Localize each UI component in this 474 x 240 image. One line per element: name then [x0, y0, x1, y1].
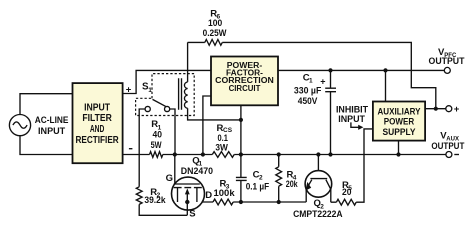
wire minus rail [122, 154, 446, 156]
wire PFC bottom / C2 branch [240, 105, 242, 202]
wire top rail R6 to output [188, 42, 436, 108]
svg-text:D: D [205, 190, 212, 201]
svg-text:100k: 100k [214, 188, 236, 199]
svg-text:INPUT: INPUT [338, 114, 365, 125]
label R5 [342, 180, 352, 198]
capacitor C1 [325, 88, 336, 92]
wire AC top [20, 94, 73, 115]
mosfet Q1 gate bar [174, 183, 200, 185]
AC source [9, 115, 30, 136]
wire drain bottom [178, 201, 214, 203]
wire PFC sense stub [203, 96, 211, 155]
label plus rectifier [126, 84, 132, 95]
svg-text:RECTIFIER: RECTIFIER [76, 135, 119, 146]
block auxiliary power supply [373, 102, 425, 141]
capacitor C2 [236, 177, 247, 180]
label Q2 CMPT2222A [293, 198, 343, 220]
terminal aux plus [446, 104, 460, 115]
resistor R2 [136, 187, 142, 205]
label INHIBIT INPUT [336, 105, 368, 125]
transistor Q2 body [305, 171, 332, 198]
transformer core bars [179, 78, 182, 110]
svg-text:0.1 µF: 0.1 µF [246, 181, 270, 192]
svg-text:SUPPLY: SUPPLY [383, 127, 417, 137]
label R4 [286, 169, 299, 190]
svg-text:AUXILIARY: AUXILIARY [378, 107, 422, 117]
wire AC bottom [20, 136, 73, 155]
wire gate riser [174, 155, 176, 185]
svg-text:+: + [126, 84, 132, 95]
mosfet Q1 source electrode [174, 188, 182, 202]
relay S1 dashed enclosure [136, 74, 195, 116]
label Q1 DN2470 [181, 155, 213, 177]
label minus rectifier [129, 148, 133, 150]
wire C1 branch [330, 70, 332, 154]
svg-text:CMPT2222A: CMPT2222A [293, 209, 343, 220]
label Vaux output [431, 130, 464, 152]
mosfet Q1 body electrode [184, 188, 191, 202]
resistor R3 [213, 199, 233, 205]
svg-text:AND: AND [90, 124, 105, 135]
svg-text:450V: 450V [298, 96, 318, 107]
svg-text:INPUT: INPUT [38, 126, 65, 137]
label RCS [215, 123, 232, 154]
switch contact right [165, 106, 170, 111]
svg-text:G: G [166, 173, 173, 184]
resistor R5 [336, 199, 356, 205]
svg-text:DN2470: DN2470 [181, 166, 213, 177]
wire switch right drop [170, 109, 175, 155]
terminal Vpfc output [444, 67, 450, 73]
svg-text:+: + [454, 104, 460, 115]
wire aux top riser [385, 70, 387, 101]
transistor Q2 base bar [310, 178, 327, 180]
label AC-LINE INPUT [35, 115, 69, 137]
svg-text:S: S [189, 209, 195, 220]
transistor Q2 collector [326, 180, 331, 203]
mosfet Q1 drain electrode [194, 188, 202, 202]
svg-text:40: 40 [153, 130, 163, 141]
resistor R6 [205, 40, 223, 46]
label G [166, 173, 173, 184]
svg-text:20: 20 [342, 187, 352, 198]
svg-text:AC-LINE: AC-LINE [35, 115, 69, 126]
wire Vpfc rail [278, 69, 444, 71]
inhibit input arrow [351, 122, 364, 129]
svg-text:POWER: POWER [384, 117, 415, 127]
svg-text:CIRCUIT: CIRCUIT [229, 84, 261, 93]
terminal Vaux minus [446, 152, 459, 158]
svg-text:FILTER: FILTER [82, 113, 112, 124]
svg-text:0.25W: 0.25W [203, 28, 227, 39]
resistor R4 [276, 167, 282, 186]
wire source drop [186, 202, 188, 215]
transistor Q2 emitter [305, 180, 311, 202]
wire switch left drop to R2 [139, 109, 187, 215]
label S1 [142, 82, 152, 94]
label Vpfc output [429, 47, 465, 67]
wire Q2 collector to R5 to aux [331, 129, 373, 202]
block input filter and rectifier [73, 83, 123, 163]
wire Q2 base riser [317, 155, 319, 178]
label S [189, 209, 195, 220]
label D [205, 190, 212, 201]
wire aux plus output [425, 108, 446, 110]
wire rectifier plus output [122, 70, 211, 93]
resistor R1 [150, 152, 163, 158]
inductor relay coil [184, 82, 187, 108]
mosfet Q1 body [172, 177, 205, 210]
label C2 [246, 170, 270, 193]
svg-text:INPUT: INPUT [84, 103, 110, 114]
wire transformer vertical [188, 42, 241, 120]
svg-text:5W: 5W [151, 140, 162, 151]
mosfet Q1 source node dot [185, 200, 189, 204]
switch contact left [145, 106, 150, 111]
wire aux bottom drop [398, 141, 400, 155]
label R1 [151, 119, 162, 151]
resistor RCS [212, 152, 234, 158]
svg-text:OUTPUT: OUTPUT [429, 56, 465, 67]
switch S1 arm [153, 99, 167, 106]
label R2 [144, 187, 166, 206]
block power factor correction circuit [211, 57, 278, 106]
svg-text:1: 1 [148, 87, 152, 94]
wire R4 branch [278, 155, 280, 203]
label R6 [203, 8, 227, 39]
label C1 [294, 73, 326, 108]
svg-text:1: 1 [309, 78, 313, 85]
svg-text:39.2k: 39.2k [144, 195, 166, 206]
svg-text:3W: 3W [215, 143, 228, 154]
svg-text:20k: 20k [286, 179, 299, 190]
svg-text:330 µF: 330 µF [294, 85, 322, 96]
label R3 [214, 179, 236, 199]
svg-text:OUTPUT: OUTPUT [431, 141, 464, 152]
wire bottom node [233, 201, 306, 203]
